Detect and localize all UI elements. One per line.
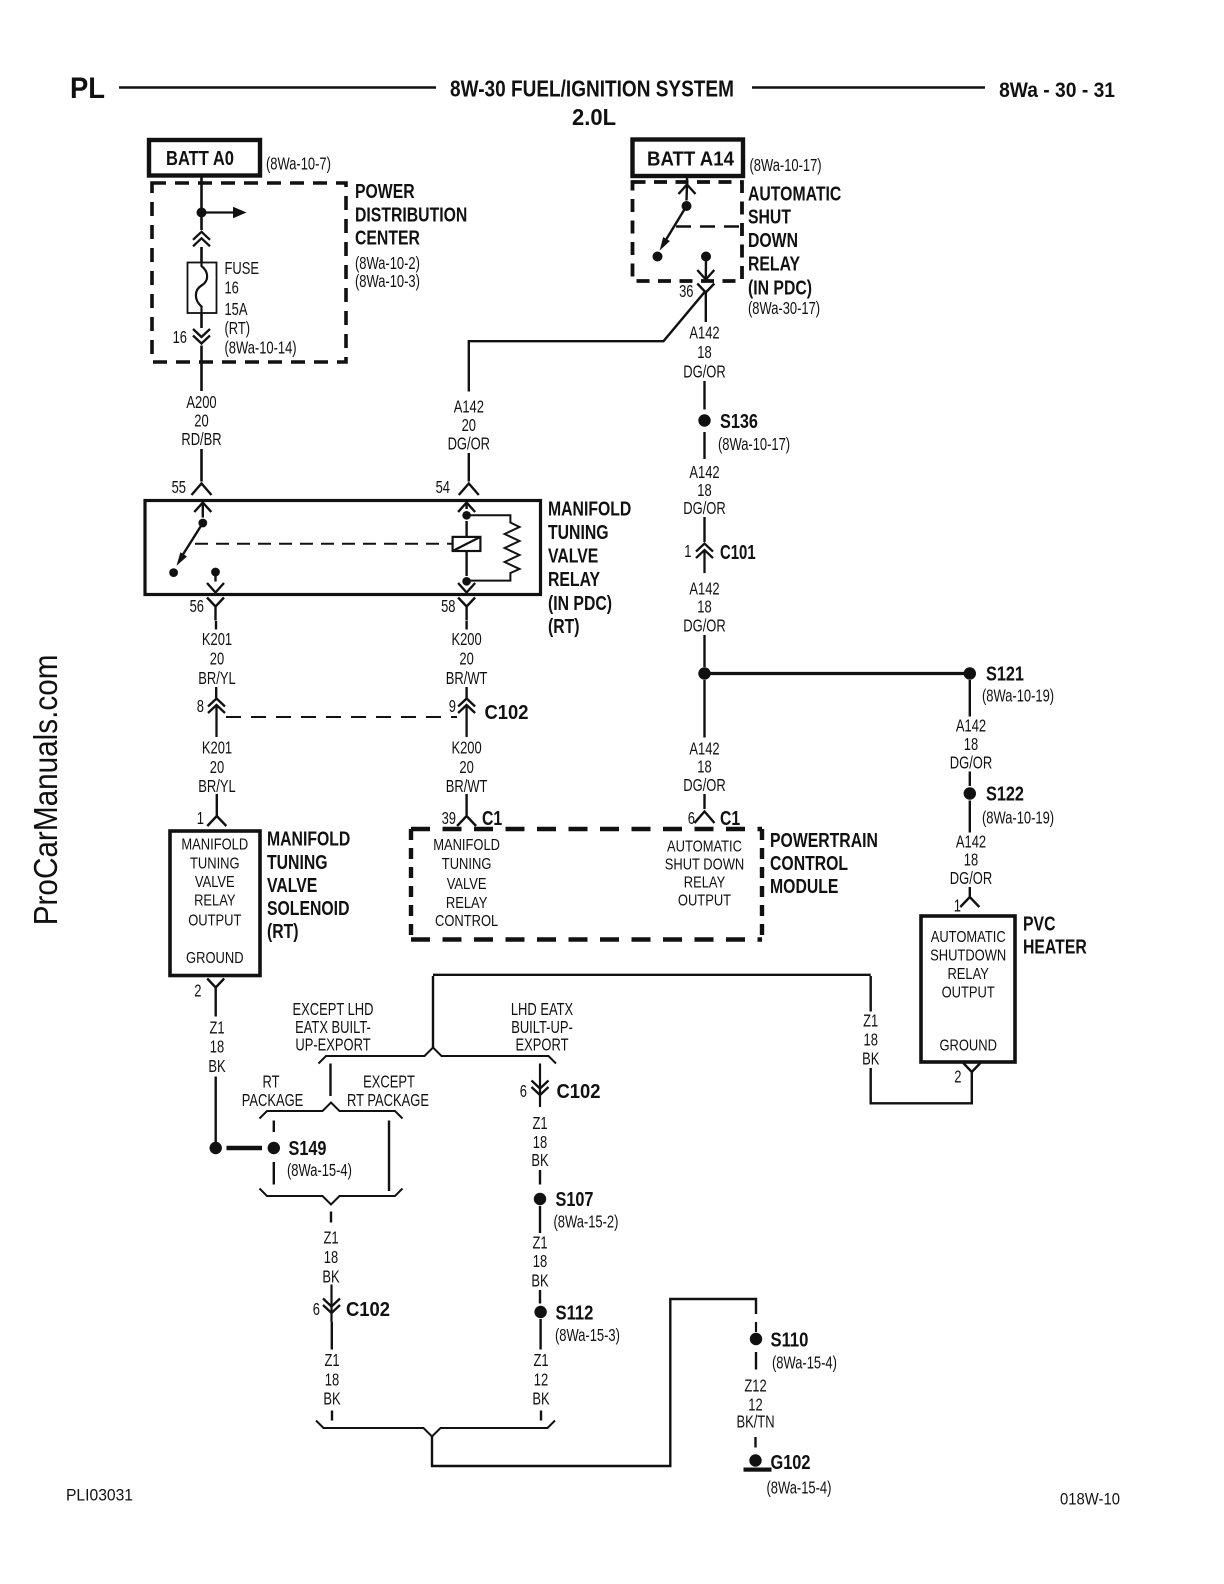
svg-text:20: 20 <box>462 416 476 435</box>
wire RT branch dashed lower <box>273 1162 275 1185</box>
arrow branch feed right <box>202 211 234 213</box>
wire to splice S107 <box>539 1170 541 1185</box>
MTV relay common contact arrow <box>194 503 211 513</box>
svg-text:AUTOMATIC: AUTOMATIC <box>667 838 742 855</box>
svg-text:Z12: Z12 <box>744 1377 766 1396</box>
svg-text:BR/WT: BR/WT <box>446 777 488 796</box>
svg-text:18: 18 <box>864 1031 878 1050</box>
svg-text:PVC: PVC <box>1023 913 1055 935</box>
wire except-RT branch <box>388 1121 390 1192</box>
wire to splice S112 <box>539 1290 541 1304</box>
svg-text:(8Wa-10-19): (8Wa-10-19) <box>982 687 1054 706</box>
power distribution center dashed box <box>152 183 346 362</box>
node ASD common <box>682 201 692 211</box>
svg-text:A142: A142 <box>689 324 719 343</box>
PVC heater box <box>921 916 1015 1062</box>
node MTV coil top <box>462 511 471 520</box>
svg-text:TUNING: TUNING <box>548 521 609 543</box>
fuse F16 box <box>188 263 217 314</box>
wire coil top to coil <box>465 521 467 537</box>
svg-text:RT: RT <box>262 1073 280 1092</box>
manifold tuning valve solenoid box <box>170 831 260 976</box>
node MTV common <box>198 519 207 528</box>
svg-text:6: 6 <box>313 1300 320 1319</box>
svg-text:6: 6 <box>520 1082 527 1101</box>
svg-text:55: 55 <box>172 478 186 497</box>
svg-text:(8Wa-30-17): (8Wa-30-17) <box>748 299 820 318</box>
wire stub to merge brace right <box>540 1411 542 1421</box>
node MTV output contact <box>211 568 220 577</box>
svg-text:POWERTRAIN: POWERTRAIN <box>770 829 878 851</box>
pin 54 connector <box>459 484 479 496</box>
wire left option branch <box>329 1064 331 1097</box>
svg-text:BR/YL: BR/YL <box>198 669 236 688</box>
svg-text:K201: K201 <box>202 630 232 649</box>
wire bus vertical right <box>870 976 872 1012</box>
svg-text:LHD EATX: LHD EATX <box>511 1000 573 1019</box>
wire S122 down <box>969 801 971 833</box>
svg-text:8W-30 FUEL/IGNITION SYSTEM: 8W-30 FUEL/IGNITION SYSTEM <box>450 76 734 102</box>
svg-text:K200: K200 <box>451 630 481 649</box>
svg-text:G102: G102 <box>770 1450 810 1473</box>
connector C101 pin 1 <box>696 544 713 574</box>
wire to C102 pin 8 <box>215 687 217 698</box>
svg-text:OUTPUT: OUTPUT <box>942 985 995 1002</box>
svg-text:56: 56 <box>190 597 204 616</box>
relay coil K1 <box>453 537 481 551</box>
pin 58 connector <box>458 598 475 621</box>
svg-text:16: 16 <box>225 279 239 298</box>
svg-text:(8Wa-15-4): (8Wa-15-4) <box>767 1479 832 1498</box>
svg-text:BK: BK <box>862 1050 880 1069</box>
split brace RT package options <box>260 1103 403 1119</box>
svg-text:RT PACKAGE: RT PACKAGE <box>347 1091 429 1110</box>
connector C102 pin 6 right <box>532 1081 549 1096</box>
wire bus stem to split brace <box>432 976 434 1048</box>
svg-text:VALVE: VALVE <box>447 876 487 893</box>
svg-text:A142: A142 <box>454 398 484 417</box>
svg-text:(8Wa-10-19): (8Wa-10-19) <box>982 809 1054 828</box>
svg-text:MANIFOLD: MANIFOLD <box>548 498 631 520</box>
svg-text:18: 18 <box>697 598 711 617</box>
pin 1 connector PVC heater <box>960 887 979 907</box>
svg-text:K201: K201 <box>202 739 232 758</box>
MTV relay switch arm <box>180 523 203 560</box>
svg-text:Z1: Z1 <box>323 1229 338 1248</box>
battery feed box BATT A0 <box>149 140 260 176</box>
svg-text:1: 1 <box>197 809 204 828</box>
svg-text:DG/OR: DG/OR <box>950 754 992 773</box>
svg-text:20: 20 <box>210 758 224 777</box>
node splice in PDC <box>197 208 207 218</box>
svg-text:CENTER: CENTER <box>355 227 420 249</box>
svg-text:EXCEPT: EXCEPT <box>363 1073 415 1092</box>
svg-text:018W-10: 018W-10 <box>1060 1491 1120 1509</box>
svg-text:18: 18 <box>964 851 978 870</box>
wire junction to S121 <box>705 672 970 675</box>
svg-text:RELAY: RELAY <box>548 568 600 590</box>
svg-text:(8Wa-10-2): (8Wa-10-2) <box>355 254 420 273</box>
svg-text:18: 18 <box>533 1133 547 1152</box>
manifold tuning valve relay box <box>145 501 541 595</box>
svg-text:S107: S107 <box>556 1187 594 1210</box>
svg-text:Z1: Z1 <box>863 1012 878 1031</box>
svg-text:MODULE: MODULE <box>770 875 838 897</box>
svg-text:18: 18 <box>325 1371 339 1390</box>
svg-text:18: 18 <box>533 1252 547 1271</box>
svg-text:18: 18 <box>964 735 978 754</box>
svg-text:A142: A142 <box>956 833 986 852</box>
svg-text:C1: C1 <box>482 807 502 829</box>
MTV coil output arrow to box edge <box>458 583 475 593</box>
svg-text:VALVE: VALVE <box>195 874 235 891</box>
svg-text:MANIFOLD: MANIFOLD <box>433 837 500 854</box>
wire branch diagonal to pin 54 <box>469 292 705 392</box>
svg-text:SOLENOID: SOLENOID <box>267 897 349 919</box>
ASD relay switch arm <box>664 206 687 243</box>
splice S110 <box>750 1333 762 1345</box>
svg-text:(8Wa-10-17): (8Wa-10-17) <box>718 435 790 454</box>
splice S121 <box>964 667 976 679</box>
svg-text:S112: S112 <box>555 1301 593 1324</box>
wire PVC pin2 U-turn to bus <box>871 1068 972 1103</box>
svg-text:(8Wa-10-3): (8Wa-10-3) <box>355 272 420 291</box>
header rule left <box>119 86 436 88</box>
svg-text:BK: BK <box>532 1390 550 1409</box>
wire stub to merge brace left <box>331 1411 333 1421</box>
svg-text:18: 18 <box>210 1038 224 1057</box>
svg-text:CONTROL: CONTROL <box>770 852 848 874</box>
svg-text:GROUND: GROUND <box>186 950 243 967</box>
svg-text:2.0L: 2.0L <box>572 103 616 130</box>
connector C102 pin 9 <box>458 699 475 738</box>
svg-text:16: 16 <box>173 328 187 347</box>
wire A142 to relay pin 54 <box>468 453 470 482</box>
svg-text:PL: PL <box>70 72 105 105</box>
svg-text:S121: S121 <box>986 662 1024 685</box>
wire S110 down <box>755 1352 757 1370</box>
svg-text:MANIFOLD: MANIFOLD <box>181 836 248 853</box>
wire ground bus horizontal <box>433 974 871 976</box>
node MTV NC contact <box>169 568 178 577</box>
svg-text:BK: BK <box>208 1057 226 1076</box>
svg-text:C101: C101 <box>720 541 756 564</box>
svg-text:ProCarManuals.com: ProCarManuals.com <box>28 654 65 925</box>
svg-text:BATT A14: BATT A14 <box>647 149 734 171</box>
svg-text:PLI03031: PLI03031 <box>66 1486 133 1504</box>
svg-text:18: 18 <box>697 343 711 362</box>
svg-text:C1: C1 <box>720 807 740 829</box>
svg-text:20: 20 <box>459 650 473 669</box>
svg-text:18: 18 <box>697 758 711 777</box>
svg-text:9: 9 <box>449 697 456 716</box>
svg-text:20: 20 <box>210 650 224 669</box>
wire S136 down <box>703 432 705 459</box>
svg-text:SHUT: SHUT <box>748 206 791 228</box>
pin 2 connector MTV solenoid <box>207 979 224 1001</box>
svg-text:RELAY: RELAY <box>947 966 989 983</box>
wire to C102 pin 9 <box>465 687 467 698</box>
svg-text:BR/YL: BR/YL <box>198 777 236 796</box>
svg-text:BK: BK <box>531 1151 549 1170</box>
svg-text:DG/OR: DG/OR <box>448 435 490 454</box>
wire pin58 down <box>465 621 467 630</box>
battery feed box BATT A14 <box>633 140 744 177</box>
wire BATT A0 to fuse <box>200 176 203 231</box>
wire junction to S149 <box>227 1146 263 1150</box>
svg-text:39: 39 <box>442 809 456 828</box>
svg-text:DG/OR: DG/OR <box>683 776 725 795</box>
svg-text:S122: S122 <box>986 782 1024 805</box>
svg-text:VALVE: VALVE <box>548 545 598 567</box>
connector C102 pin 8 <box>208 699 225 738</box>
svg-text:2: 2 <box>954 1068 961 1087</box>
svg-text:AUTOMATIC: AUTOMATIC <box>931 929 1006 946</box>
pin 36 connector <box>697 284 714 323</box>
resistor parallel to coil <box>467 515 520 580</box>
svg-text:A142: A142 <box>956 717 986 736</box>
pin 55 connector <box>192 484 212 496</box>
svg-text:S149: S149 <box>289 1136 327 1159</box>
wire to PCM pin 39 <box>465 794 467 806</box>
wire S121 down <box>969 680 971 717</box>
merge brace bottom <box>316 1421 555 1437</box>
svg-text:OUTPUT: OUTPUT <box>678 892 731 909</box>
svg-text:BATT A0: BATT A0 <box>166 147 234 170</box>
svg-text:20: 20 <box>459 758 473 777</box>
MTV relay mechanical link dashed <box>195 543 452 545</box>
svg-text:POWER: POWER <box>355 180 415 202</box>
svg-text:BK: BK <box>531 1272 549 1291</box>
wire junction down to PCM <box>703 680 705 738</box>
svg-text:EXPORT: EXPORT <box>516 1036 569 1055</box>
svg-text:BR/WT: BR/WT <box>446 669 488 688</box>
wire merge brace to S110 route <box>432 1299 756 1466</box>
svg-text:HEATER: HEATER <box>1023 936 1087 958</box>
split brace LHD options <box>319 1048 557 1064</box>
wire to MTV solenoid pin 1 <box>216 794 218 806</box>
svg-text:RELAY: RELAY <box>194 893 236 910</box>
MTV output arrow to box edge <box>214 572 216 582</box>
header rule right <box>752 86 985 88</box>
svg-text:SHUTDOWN: SHUTDOWN <box>930 948 1006 965</box>
svg-text:TUNING: TUNING <box>442 856 492 873</box>
wire right option branch <box>539 1064 541 1108</box>
splice S149 <box>268 1142 280 1154</box>
pin 16 connector chevrons <box>193 329 210 344</box>
svg-text:BUILT-UP-: BUILT-UP- <box>511 1018 573 1037</box>
wire pin56 down <box>215 621 217 630</box>
svg-text:8Wa - 30 - 31: 8Wa - 30 - 31 <box>999 79 1115 102</box>
svg-text:EATX BUILT-: EATX BUILT- <box>295 1018 371 1037</box>
svg-text:DG/OR: DG/OR <box>683 617 725 636</box>
svg-text:(RT): (RT) <box>548 615 580 637</box>
svg-text:(8Wa-15-4): (8Wa-15-4) <box>772 1354 837 1373</box>
svg-text:RELAY: RELAY <box>748 253 800 275</box>
wire fuse to pin 16 <box>200 313 203 328</box>
pin 6 C1 connector <box>695 812 715 824</box>
ASD relay common contact arrow <box>679 185 696 195</box>
powertrain control module dashed box <box>411 827 762 831</box>
svg-text:VALVE: VALVE <box>267 874 317 896</box>
wire RT branch dashed upper <box>273 1121 275 1133</box>
automatic shut down relay dashed box <box>633 182 743 281</box>
svg-text:2: 2 <box>194 982 201 1001</box>
svg-text:15A: 15A <box>225 300 249 319</box>
svg-text:1: 1 <box>684 542 691 561</box>
svg-text:(IN PDC): (IN PDC) <box>548 592 612 614</box>
wire BATT A14 into relay <box>686 176 688 184</box>
wire MTV pin2 down <box>214 1001 216 1017</box>
svg-text:18: 18 <box>324 1248 338 1267</box>
wire to ground G102 <box>754 1437 756 1448</box>
svg-text:36: 36 <box>679 282 693 301</box>
svg-text:(8Wa-15-3): (8Wa-15-3) <box>555 1326 620 1345</box>
svg-text:C102: C102 <box>556 1081 600 1103</box>
svg-text:Z1: Z1 <box>532 1234 547 1253</box>
svg-text:MANIFOLD: MANIFOLD <box>267 828 350 850</box>
svg-text:(RT): (RT) <box>267 920 299 942</box>
splice S136 <box>698 414 710 426</box>
svg-text:AUTOMATIC: AUTOMATIC <box>748 183 841 205</box>
splice S107 <box>534 1193 546 1205</box>
svg-text:20: 20 <box>194 412 208 431</box>
wire pin16 to label A200 <box>200 346 203 392</box>
wire below C102 left <box>331 1322 333 1350</box>
svg-text:6: 6 <box>688 809 695 828</box>
pin 39 C1 connector <box>457 806 476 826</box>
wire into fuse box <box>200 247 203 263</box>
svg-text:54: 54 <box>436 478 451 497</box>
wire S107 down <box>539 1206 541 1233</box>
svg-text:Z1: Z1 <box>209 1019 224 1038</box>
svg-text:8: 8 <box>197 697 204 716</box>
svg-text:BK: BK <box>323 1390 341 1409</box>
svg-text:DISTRIBUTION: DISTRIBUTION <box>355 204 467 226</box>
svg-text:FUSE: FUSE <box>225 259 260 278</box>
svg-text:K200: K200 <box>451 739 481 758</box>
svg-text:(8Wa-10-17): (8Wa-10-17) <box>750 156 822 175</box>
merge brace RT package options <box>260 1189 403 1205</box>
svg-text:(8Wa-15-2): (8Wa-15-2) <box>554 1213 619 1232</box>
svg-text:A142: A142 <box>689 463 719 482</box>
svg-text:(8Wa-10-7): (8Wa-10-7) <box>266 155 331 174</box>
svg-text:UP-EXPORT: UP-EXPORT <box>295 1036 371 1055</box>
svg-text:TUNING: TUNING <box>267 851 328 873</box>
svg-text:DG/OR: DG/OR <box>683 363 725 382</box>
svg-text:SHUT DOWN: SHUT DOWN <box>665 857 745 874</box>
node junction Z1 left <box>210 1142 222 1154</box>
MTV coil feed contact arrow <box>458 503 475 513</box>
svg-text:A142: A142 <box>689 580 719 599</box>
ground G102 <box>749 1454 761 1466</box>
svg-text:EXCEPT LHD: EXCEPT LHD <box>293 1000 374 1019</box>
svg-text:A200: A200 <box>186 393 216 412</box>
wire to PCM pin 6 <box>703 794 705 809</box>
svg-text:BK/TN: BK/TN <box>736 1413 774 1432</box>
node junction A142 <box>698 667 710 679</box>
svg-text:RELAY: RELAY <box>446 895 488 912</box>
pin 1 connector MTV solenoid <box>207 806 226 826</box>
fuse element squiggle <box>196 263 207 314</box>
svg-text:Z1: Z1 <box>532 1114 547 1133</box>
svg-text:18: 18 <box>697 481 711 500</box>
wire to connector C101 <box>703 517 705 542</box>
svg-text:DOWN: DOWN <box>748 229 798 251</box>
svg-text:58: 58 <box>441 597 455 616</box>
svg-text:Z1: Z1 <box>533 1351 548 1370</box>
svg-text:(8Wa-15-4): (8Wa-15-4) <box>287 1161 352 1180</box>
svg-text:S136: S136 <box>720 409 758 432</box>
ASD output arrow to box edge <box>705 257 708 279</box>
svg-text:(RT): (RT) <box>225 319 251 338</box>
svg-text:(IN PDC): (IN PDC) <box>748 277 812 299</box>
svg-text:RD/BR: RD/BR <box>181 430 221 449</box>
svg-text:BK: BK <box>322 1268 340 1287</box>
connector chevrons fuse input <box>193 232 210 247</box>
ASD coil link dashed <box>676 225 742 227</box>
node MTV coil bottom <box>462 577 471 586</box>
svg-text:12: 12 <box>534 1371 548 1390</box>
svg-text:S110: S110 <box>770 1328 808 1351</box>
svg-text:Z1: Z1 <box>324 1351 339 1370</box>
svg-text:1: 1 <box>954 897 961 916</box>
wire S112 down <box>539 1319 541 1350</box>
svg-text:C102: C102 <box>485 702 529 724</box>
pin 2 connector PVC heater <box>963 1063 980 1086</box>
wire to connector C102 left <box>330 1285 332 1323</box>
splice S122 <box>964 787 976 799</box>
wire coil to bottom node <box>465 551 467 576</box>
svg-text:TUNING: TUNING <box>190 856 240 873</box>
svg-text:C102: C102 <box>346 1299 390 1321</box>
svg-text:DG/OR: DG/OR <box>950 869 992 888</box>
wire A200 to relay pin 55 <box>200 449 203 482</box>
splice S112 <box>534 1306 546 1318</box>
node ASD NC contact <box>653 252 663 262</box>
connector C102 pin 6 left <box>323 1299 340 1314</box>
svg-text:DG/OR: DG/OR <box>683 499 725 518</box>
wire to splice S122 <box>969 772 971 787</box>
svg-text:OUTPUT: OUTPUT <box>188 912 241 929</box>
svg-text:A142: A142 <box>689 740 719 759</box>
svg-text:RELAY: RELAY <box>684 875 726 892</box>
pin 56 connector <box>207 598 224 621</box>
node ASD output contact <box>701 252 711 262</box>
connector C102 dashed pairing line <box>226 716 457 718</box>
wire C101 to junction <box>703 635 705 667</box>
wire to splice S136 <box>703 381 705 410</box>
svg-text:PACKAGE: PACKAGE <box>242 1091 304 1110</box>
wire stub below merge brace <box>330 1212 332 1223</box>
svg-text:GROUND: GROUND <box>939 1038 996 1055</box>
wire to junction left <box>214 1077 216 1143</box>
svg-text:CONTROL: CONTROL <box>435 913 498 930</box>
svg-text:(8Wa-10-14): (8Wa-10-14) <box>225 339 297 358</box>
